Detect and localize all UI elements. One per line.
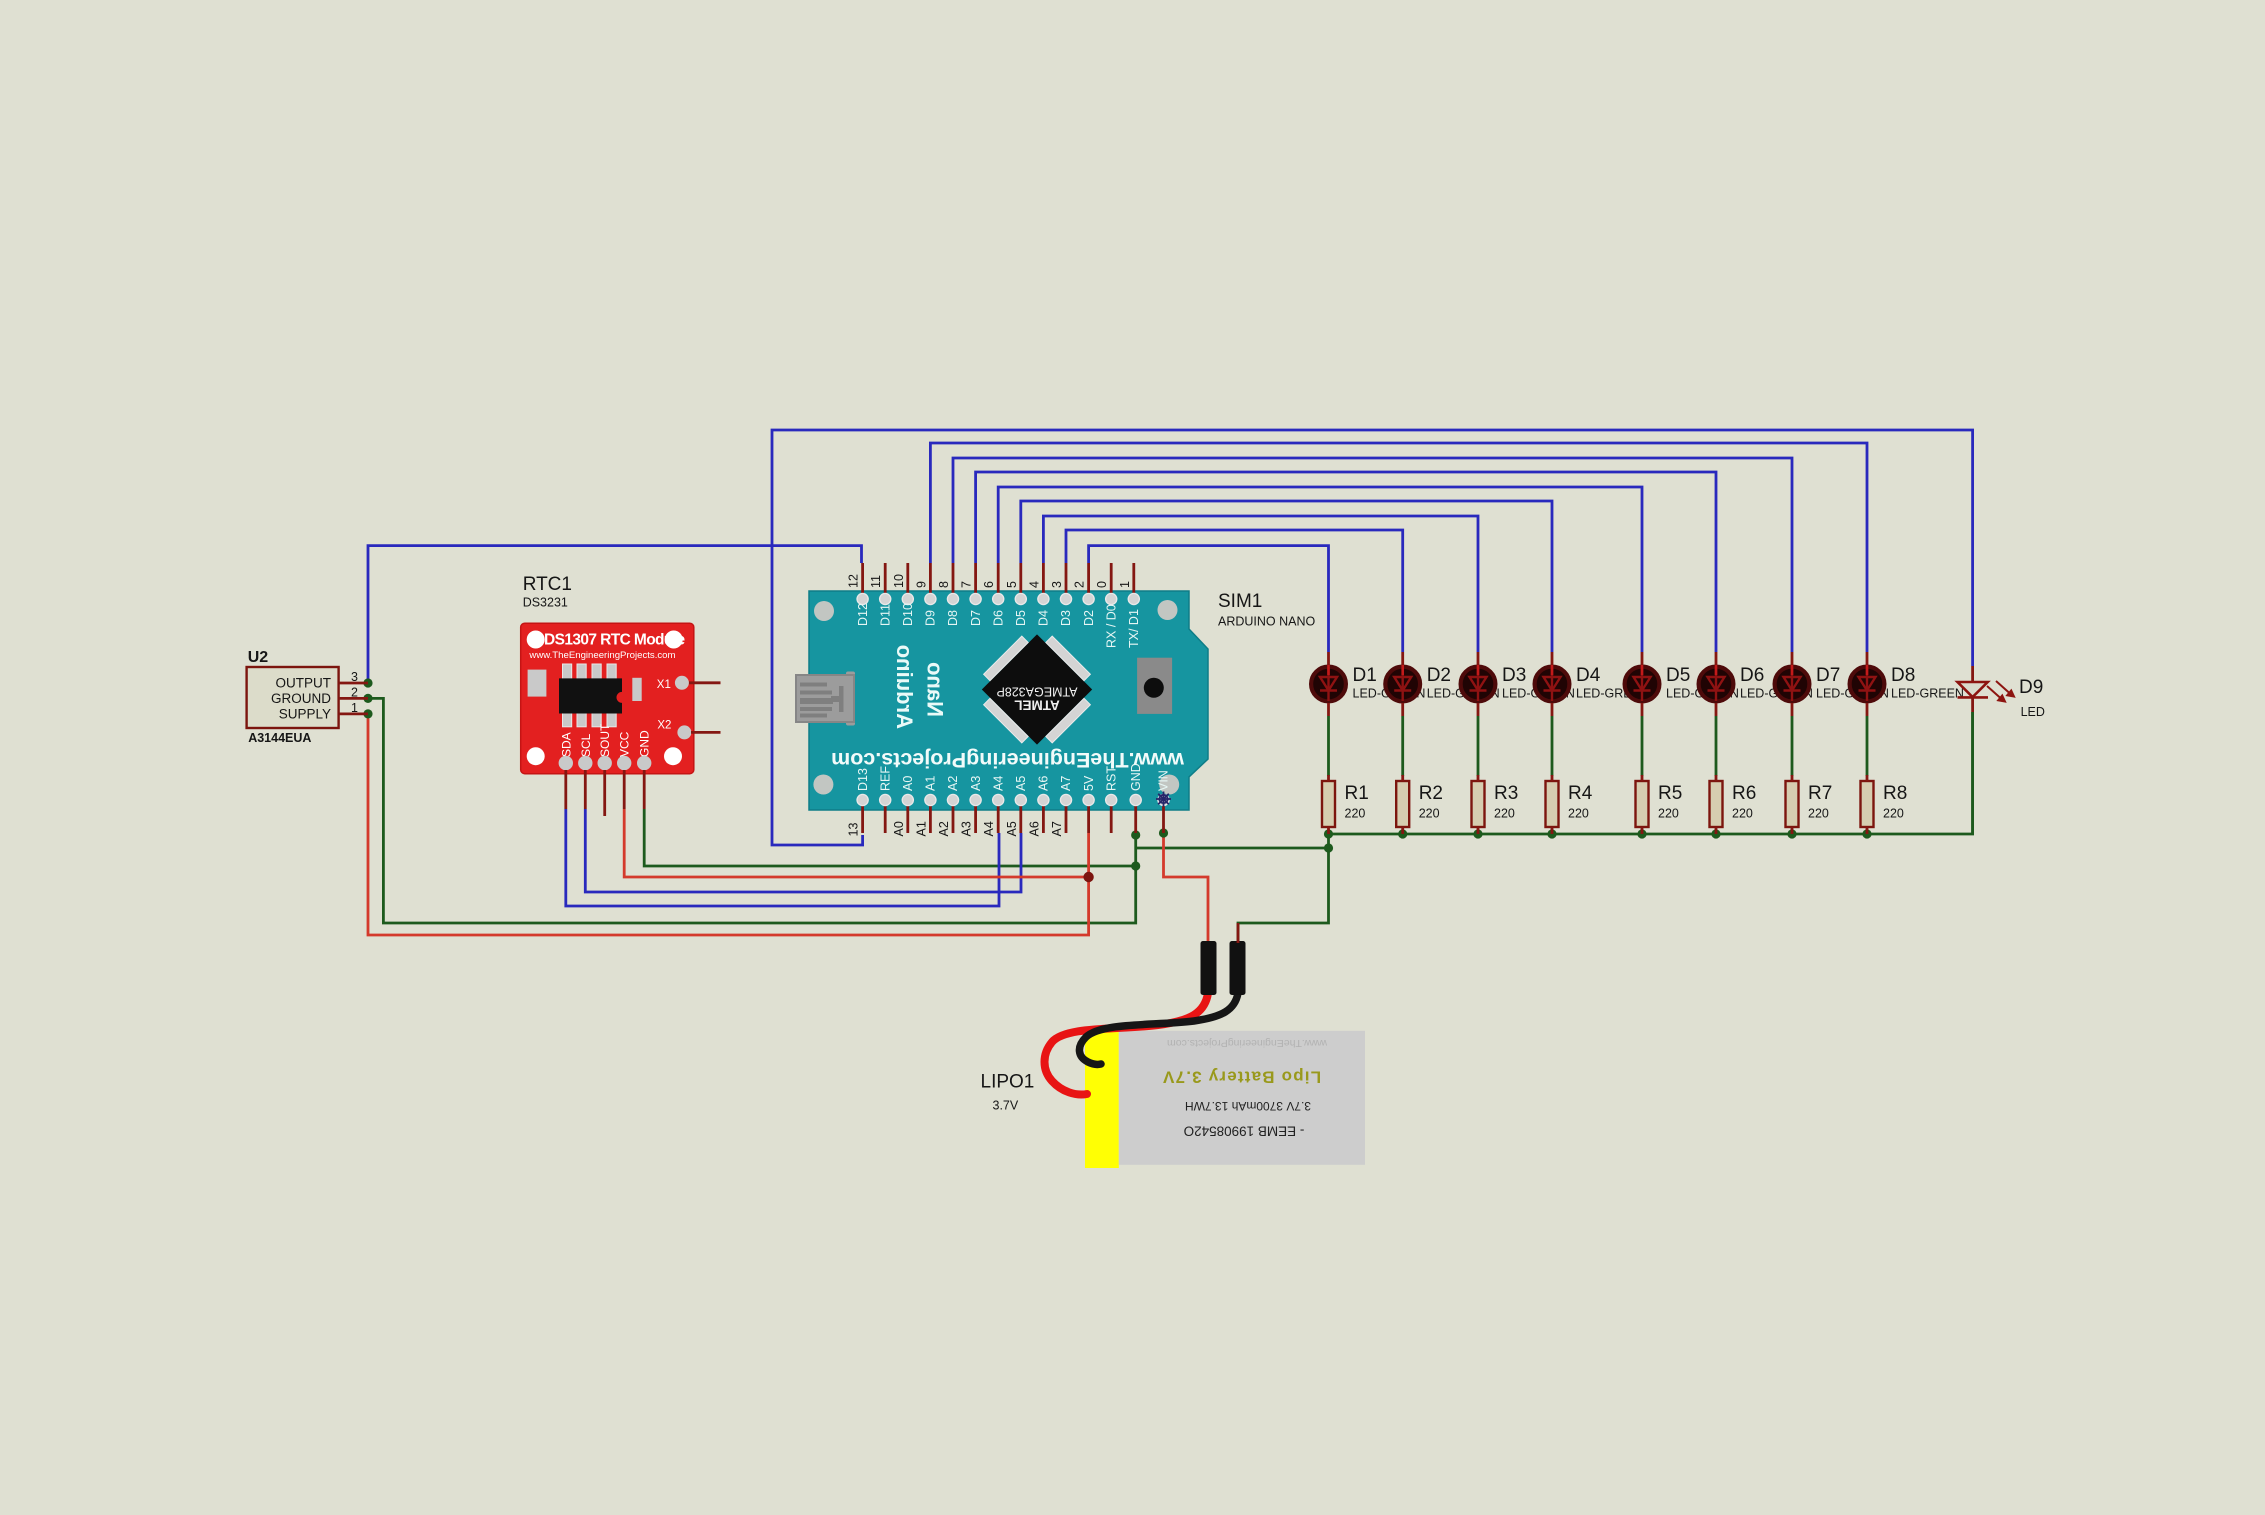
svg-text:2: 2 xyxy=(351,686,358,700)
svg-text:www.TheEngineeringProjects.com: www.TheEngineeringProjects.com xyxy=(831,748,1185,772)
wire 5V net: U2 SUPPLY to Arduino 5V (red) xyxy=(368,714,1089,935)
wire LED D6 cathode to resistor R6 xyxy=(1715,716,1718,776)
svg-text:LIPO1: LIPO1 xyxy=(981,1072,1035,1093)
svg-text:D7: D7 xyxy=(1816,665,1840,686)
wire ground net: U2 GROUND down-left vertical xyxy=(368,698,1136,923)
RTC IC top legs xyxy=(563,664,572,682)
battery negative connector sleeve xyxy=(1230,941,1246,995)
RTC mounting hole top-left xyxy=(527,631,545,649)
diode LED D1 xyxy=(1311,665,1346,701)
RTC SOUT pad xyxy=(598,756,612,770)
junction dot Arduino VIN pin xyxy=(1159,828,1168,837)
svg-text:GROUND: GROUND xyxy=(271,691,331,706)
svg-text:A2: A2 xyxy=(937,821,951,836)
LED D1 cathode stub xyxy=(1327,703,1330,716)
Arduino mounting hole bottom-left xyxy=(813,775,833,795)
LED D5 anode stub xyxy=(1641,652,1644,665)
svg-text:R1: R1 xyxy=(1345,783,1369,804)
svg-text:Arduino: Arduino xyxy=(892,645,917,729)
diode LED D2 xyxy=(1385,665,1420,701)
svg-text:D1: D1 xyxy=(1353,665,1377,686)
RTC X1 pin stub xyxy=(689,681,721,684)
svg-text:3.7V 3700mAh 13.7WH: 3.7V 3700mAh 13.7WH xyxy=(1185,1099,1311,1113)
Arduino top pads xyxy=(857,593,868,604)
LED D8 anode stub xyxy=(1866,652,1869,665)
svg-text:D5: D5 xyxy=(1014,610,1028,626)
resistor R1 top stub xyxy=(1327,775,1330,781)
LED D3 anode stub xyxy=(1477,652,1480,665)
RTC mounting hole bottom-left xyxy=(527,747,545,765)
resistor R8 body xyxy=(1861,781,1874,827)
Arduino USB connector xyxy=(846,672,855,726)
svg-text:220: 220 xyxy=(1732,807,1753,821)
svg-text:A2: A2 xyxy=(946,776,960,791)
RTC SDA pad xyxy=(559,756,573,770)
svg-text:D9: D9 xyxy=(924,610,938,626)
junction dot R4 bottom xyxy=(1547,829,1556,838)
wire Arduino D6 pin to LED D5 (blue) xyxy=(998,487,1642,652)
svg-text:D5: D5 xyxy=(1666,665,1690,686)
RTC mounting hole top-right xyxy=(665,631,683,649)
RTC left gray pad xyxy=(528,670,547,697)
svg-text:D2: D2 xyxy=(1082,610,1096,626)
diode LED D8 xyxy=(1850,665,1885,701)
svg-text:11: 11 xyxy=(869,575,883,588)
component RTC1 DS1307 RTC module board xyxy=(521,623,694,774)
Arduino bottom pads xyxy=(857,794,868,805)
svg-text:7: 7 xyxy=(960,581,974,588)
svg-text:D11: D11 xyxy=(878,604,892,626)
resistor R6 body xyxy=(1710,781,1723,827)
wire D9 cathode down to ground bus xyxy=(1971,712,1974,834)
LED D4 anode stub xyxy=(1551,652,1554,665)
svg-text:D9: D9 xyxy=(2019,677,2043,698)
Arduino mounting hole bottom-right xyxy=(1159,775,1179,795)
svg-text:D8: D8 xyxy=(946,610,960,626)
LED D3 cathode stub xyxy=(1477,703,1480,716)
resistor R2 body xyxy=(1396,781,1409,827)
svg-text:3: 3 xyxy=(1050,581,1064,588)
svg-text:A1: A1 xyxy=(914,821,928,836)
junction dot U2 pin 1 xyxy=(363,709,372,718)
junction dot R3 bottom xyxy=(1473,829,1482,838)
junction dot Arduino GND pin xyxy=(1131,830,1140,839)
LED D8 cathode stub xyxy=(1866,703,1869,716)
diode LED D5 xyxy=(1625,665,1660,701)
diode LED D4 xyxy=(1535,665,1570,701)
Arduino ATMEGA328P chip xyxy=(968,621,1105,758)
wire LED D5 cathode to resistor R5 xyxy=(1641,716,1644,776)
diode D9 cathode stub xyxy=(1971,697,1974,712)
wire LED D2 cathode to resistor R2 xyxy=(1401,716,1404,776)
junction dot R6 bottom xyxy=(1711,829,1720,838)
svg-text:X1: X1 xyxy=(657,679,671,691)
LED D7 cathode stub xyxy=(1791,703,1794,716)
U2 pin stub 2 (GROUND) xyxy=(339,697,368,700)
U2 pin stub 3 (OUTPUT) xyxy=(339,682,368,685)
svg-text:A4: A4 xyxy=(991,776,1005,791)
resistor R8 top stub xyxy=(1866,775,1869,781)
resistor R7 bottom stub xyxy=(1791,827,1794,834)
svg-text:3: 3 xyxy=(351,670,358,684)
resistor R4 top stub xyxy=(1551,775,1554,781)
Arduino mounting hole top-left xyxy=(814,601,834,621)
svg-text:A1: A1 xyxy=(924,776,938,791)
RTC VCC pin stub xyxy=(623,770,626,809)
RTC IC bottom legs xyxy=(563,709,572,727)
svg-text:220: 220 xyxy=(1494,807,1515,821)
LED D4 cathode stub xyxy=(1551,703,1554,716)
svg-text:U2: U2 xyxy=(248,649,269,666)
svg-text:- EEMB 19908542O: - EEMB 19908542O xyxy=(1184,1123,1305,1138)
RTC IC body DS1307 xyxy=(559,678,622,713)
svg-text:A3: A3 xyxy=(969,776,983,791)
component SIM1 Arduino Nano board xyxy=(809,591,1208,810)
wire VIN to battery positive (red) xyxy=(1164,833,1209,941)
wire LED D4 cathode to resistor R4 xyxy=(1551,716,1554,776)
U2 pin stub 1 (SUPPLY) xyxy=(339,713,368,716)
svg-text:Lipo Battery 3.7V: Lipo Battery 3.7V xyxy=(1162,1068,1321,1087)
svg-text:OUTPUT: OUTPUT xyxy=(276,676,332,691)
diode D9 anode stub xyxy=(1971,666,1974,682)
svg-text:A7: A7 xyxy=(1050,821,1064,836)
svg-text:12: 12 xyxy=(847,574,861,588)
wire 5V net: RTC VCC branch (red) xyxy=(624,809,1088,877)
svg-text:R5: R5 xyxy=(1658,783,1682,804)
junction dot RTC GND tee xyxy=(1131,861,1140,870)
wire Arduino D8 pin to LED D7 (blue) xyxy=(953,458,1792,652)
svg-text:A0: A0 xyxy=(892,821,906,836)
svg-text:2: 2 xyxy=(1073,581,1087,588)
svg-text:220: 220 xyxy=(1658,807,1679,821)
svg-text:4: 4 xyxy=(1027,581,1041,588)
svg-text:SOUT: SOUT xyxy=(598,723,612,757)
LED D6 cathode stub xyxy=(1715,703,1718,716)
wire Arduino D13 to LED D9 (blue) xyxy=(772,430,1973,845)
svg-text:ARDUINO NANO: ARDUINO NANO xyxy=(1218,615,1316,629)
svg-text:D4: D4 xyxy=(1576,665,1601,686)
svg-text:SIM1: SIM1 xyxy=(1218,591,1262,612)
svg-text:VIN: VIN xyxy=(1157,770,1171,791)
wire LED D8 cathode to resistor R8 xyxy=(1866,716,1869,776)
svg-text:A4: A4 xyxy=(982,821,996,836)
svg-text:TX/ D1: TX/ D1 xyxy=(1127,609,1141,648)
battery positive lead wire (red) xyxy=(1045,993,1209,1094)
svg-text:R8: R8 xyxy=(1883,783,1907,804)
diode LED D7 xyxy=(1775,665,1810,701)
RTC GND pad xyxy=(637,756,651,770)
svg-text:D6: D6 xyxy=(991,610,1005,626)
junction dot R2 bottom xyxy=(1398,829,1407,838)
svg-text:9: 9 xyxy=(914,581,928,588)
junction dot U2 pin 2 xyxy=(363,694,372,703)
svg-text:A6: A6 xyxy=(1037,776,1051,791)
wire RTC SCL to Arduino A5 (blue) xyxy=(585,809,1021,892)
RTC X2 pad xyxy=(677,725,691,739)
wire Arduino D9 pin to LED D8 (blue) xyxy=(930,443,1867,652)
svg-text:D8: D8 xyxy=(1891,665,1915,686)
svg-text:X2: X2 xyxy=(657,720,671,732)
battery negative lead wire (black) xyxy=(1079,993,1238,1064)
wire Arduino D2 pin to LED D1 (blue) xyxy=(1089,546,1329,652)
resistor R7 body xyxy=(1786,781,1799,827)
wire LED D7 cathode to resistor R7 xyxy=(1791,716,1794,776)
RTC SCL pad xyxy=(578,756,592,770)
LED D2 cathode stub xyxy=(1401,703,1404,716)
resistor R6 bottom stub xyxy=(1715,827,1718,834)
resistor R1 body xyxy=(1322,781,1335,827)
svg-text:R7: R7 xyxy=(1808,783,1832,804)
svg-text:DS1307 RTC Module: DS1307 RTC Module xyxy=(544,632,686,649)
LED D2 anode stub xyxy=(1401,652,1404,665)
svg-text:ATMEGA328P: ATMEGA328P xyxy=(996,685,1077,699)
svg-text:6: 6 xyxy=(982,581,996,588)
svg-text:RX / D0: RX / D0 xyxy=(1104,604,1118,648)
resistor R1 bottom stub xyxy=(1327,827,1330,834)
resistor R3 top stub xyxy=(1477,775,1480,781)
resistor R2 top stub xyxy=(1401,775,1404,781)
svg-text:VCC: VCC xyxy=(618,731,632,757)
svg-text:ATMEL: ATMEL xyxy=(1014,697,1060,712)
svg-text:220: 220 xyxy=(1345,807,1366,821)
svg-text:1: 1 xyxy=(351,701,358,715)
svg-text:220: 220 xyxy=(1419,807,1440,821)
wire Arduino D3 pin to LED D2 (blue) xyxy=(1066,530,1403,652)
resistor R3 body xyxy=(1472,781,1485,827)
RTC GND pin stub xyxy=(643,770,646,809)
VIN no-connect marker xyxy=(1156,792,1171,807)
LED D5 cathode stub xyxy=(1641,703,1644,716)
svg-text:A0: A0 xyxy=(901,776,915,791)
svg-text:A5: A5 xyxy=(1005,821,1019,836)
RTC SOUT pin stub xyxy=(603,770,606,816)
RTC VCC pad xyxy=(617,756,631,770)
resistor R4 bottom stub xyxy=(1551,827,1554,834)
svg-text:D3: D3 xyxy=(1059,610,1073,626)
diode D9 LED symbol xyxy=(1958,682,1989,697)
resistor R3 bottom stub xyxy=(1477,827,1480,834)
svg-text:1: 1 xyxy=(1118,581,1132,588)
junction dot R1 bus upper xyxy=(1324,829,1333,838)
resistor R5 top stub xyxy=(1641,775,1644,781)
wire ground net: resistor bottom bus to D9 xyxy=(1329,712,1973,834)
RTC mounting hole bottom-right xyxy=(664,747,682,765)
wire U2 OUTPUT to Arduino D12 (blue) xyxy=(368,546,862,683)
svg-text:DS3231: DS3231 xyxy=(523,596,568,610)
battery negative pin wire xyxy=(1237,923,1240,943)
RTC X2 pin stub xyxy=(691,731,721,734)
svg-text:3.7V: 3.7V xyxy=(993,1099,1019,1113)
svg-text:D10: D10 xyxy=(901,603,915,626)
svg-text:R2: R2 xyxy=(1419,783,1443,804)
svg-text:A7: A7 xyxy=(1059,776,1073,791)
svg-text:D4: D4 xyxy=(1037,610,1051,626)
svg-text:www.TheEngineeringProjects.com: www.TheEngineeringProjects.com xyxy=(1167,1037,1328,1049)
svg-text:R4: R4 xyxy=(1568,783,1593,804)
svg-text:13: 13 xyxy=(847,823,861,837)
battery positive connector sleeve xyxy=(1201,941,1217,995)
svg-text:D2: D2 xyxy=(1427,665,1451,686)
svg-text:RTC1: RTC1 xyxy=(523,574,572,595)
diode LED D6 xyxy=(1699,665,1734,701)
battery LIPO1 gray body xyxy=(1119,1031,1365,1165)
wire RTC SDA to Arduino A4 (blue) xyxy=(566,809,999,906)
wire ground net: R1 to Arduino GND link xyxy=(1238,834,1329,941)
junction dot R8 bottom xyxy=(1862,829,1871,838)
svg-text:D7: D7 xyxy=(969,610,983,626)
svg-text:SUPPLY: SUPPLY xyxy=(279,706,331,721)
svg-text:Nano: Nano xyxy=(923,662,948,717)
wire LED D1 cathode to resistor R1 xyxy=(1327,716,1330,776)
wire Arduino D7 pin to LED D6 (blue) xyxy=(976,472,1716,652)
svg-text:LED: LED xyxy=(2021,705,2045,719)
svg-text:A5: A5 xyxy=(1014,776,1028,791)
svg-text:A3: A3 xyxy=(960,821,974,836)
svg-text:LED-GREEN: LED-GREEN xyxy=(1891,687,1964,701)
battery LIPO1 yellow cell xyxy=(1085,1027,1119,1169)
svg-text:5: 5 xyxy=(1005,581,1019,588)
svg-text:D3: D3 xyxy=(1502,665,1526,686)
RTC SCL pin stub xyxy=(584,770,587,809)
svg-text:GND: GND xyxy=(638,730,652,757)
LED D1 anode stub xyxy=(1327,652,1330,665)
resistor R5 body xyxy=(1636,781,1649,827)
Arduino bottom pin stubs xyxy=(861,800,864,833)
svg-text:0: 0 xyxy=(1095,581,1109,588)
junction dot 5V/VCC (red) xyxy=(1083,872,1093,882)
svg-text:220: 220 xyxy=(1808,807,1829,821)
resistor R8 bottom stub xyxy=(1866,827,1869,834)
resistor R6 top stub xyxy=(1715,775,1718,781)
diode LED D3 xyxy=(1461,665,1496,701)
LED D7 anode stub xyxy=(1791,652,1794,665)
svg-text:R6: R6 xyxy=(1732,783,1756,804)
LED D6 anode stub xyxy=(1715,652,1718,665)
svg-text:8: 8 xyxy=(937,581,951,588)
resistor R5 bottom stub xyxy=(1641,827,1644,834)
svg-text:220: 220 xyxy=(1883,807,1904,821)
svg-text:A6: A6 xyxy=(1027,821,1041,836)
Arduino mounting hole top-right xyxy=(1158,600,1178,620)
diode D9 light arrows xyxy=(1987,681,2014,702)
junction dot U2 pin 3 xyxy=(363,678,372,687)
junction dot R7 bottom xyxy=(1787,829,1796,838)
resistor R2 bottom stub xyxy=(1401,827,1404,834)
RTC SDA pin stub xyxy=(564,770,567,809)
svg-text:D6: D6 xyxy=(1740,665,1764,686)
svg-text:SDA: SDA xyxy=(559,732,573,757)
junction dot R1 bus lower xyxy=(1324,843,1333,852)
Arduino top pin stubs xyxy=(861,563,864,599)
wire LED D3 cathode to resistor R3 xyxy=(1477,716,1480,776)
Arduino reset button xyxy=(1137,658,1172,714)
RTC small pad right of IC xyxy=(632,678,641,701)
svg-text:A3144EUA: A3144EUA xyxy=(248,731,311,745)
svg-text:10: 10 xyxy=(892,574,906,588)
wire ground net: link from GND horizontal at y=848 xyxy=(1136,847,1329,850)
RTC X1 pad xyxy=(675,676,689,690)
svg-text:www.TheEngineeringProjects.com: www.TheEngineeringProjects.com xyxy=(528,650,675,661)
wire Arduino D4 pin to LED D3 (blue) xyxy=(1043,516,1478,652)
svg-text:R3: R3 xyxy=(1494,783,1518,804)
resistor R7 top stub xyxy=(1791,775,1794,781)
wire ground net: RTC GND branch xyxy=(644,809,1135,866)
svg-text:D12: D12 xyxy=(856,603,870,626)
component U2 A3144EUA body xyxy=(247,667,339,728)
svg-text:220: 220 xyxy=(1568,807,1589,821)
wire Arduino D5 pin to LED D4 (blue) xyxy=(1021,501,1552,652)
junction dot R5 bottom xyxy=(1637,829,1646,838)
svg-text:5V: 5V xyxy=(1082,775,1096,791)
resistor R4 body xyxy=(1546,781,1559,827)
svg-text:SCL: SCL xyxy=(579,733,593,757)
